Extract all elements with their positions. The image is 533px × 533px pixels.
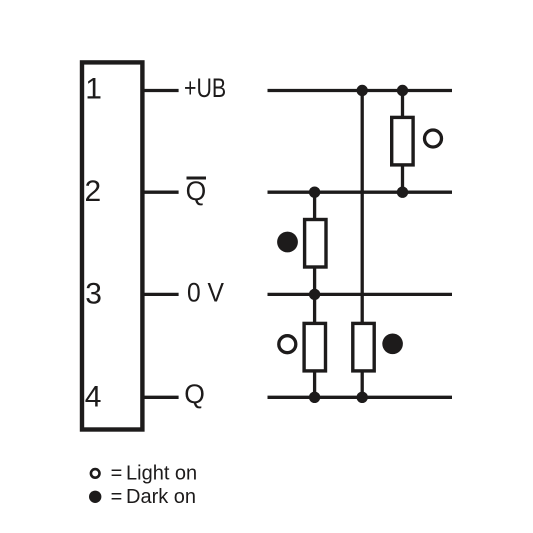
svg-text:2: 2 xyxy=(85,175,102,208)
wire Q-bar rail xyxy=(268,191,453,194)
svg-text:4: 4 xyxy=(85,380,102,413)
svg-text:Dark on: Dark on xyxy=(126,486,196,508)
junction dot Q / R3 branch xyxy=(309,392,320,403)
indicator dark-on (filled circle) beside R4 xyxy=(382,334,403,355)
overline of Q-bar xyxy=(187,177,207,180)
junction dot +UB / R1 branch xyxy=(397,85,408,96)
svg-text:+UB: +UB xyxy=(184,73,226,103)
indicator light-on (open circle) beside R3 xyxy=(279,336,296,353)
resistor R2 (load between Q-bar and 0V) xyxy=(305,220,326,268)
junction dot Q / R4 branch xyxy=(357,392,368,403)
svg-text:Light on: Light on xyxy=(126,463,197,485)
pin 4 stub xyxy=(142,396,179,399)
pin 2 stub xyxy=(142,191,179,194)
wire 0V rail xyxy=(268,293,453,296)
junction dot 0V / R2-R3 branch xyxy=(309,289,320,300)
wire R4 bottom to Q rail xyxy=(361,371,364,397)
wire R3 bottom to Q rail xyxy=(313,371,316,397)
resistor R3 (load between 0V and Q) xyxy=(304,323,325,371)
svg-text:0 V: 0 V xyxy=(187,278,224,308)
indicator light-on (open circle) beside R1 xyxy=(425,130,442,147)
wire R1 bottom to Q-bar rail xyxy=(401,165,404,192)
legend open circle (light on) xyxy=(91,469,100,478)
svg-text:=: = xyxy=(111,463,123,485)
svg-text:1: 1 xyxy=(85,72,102,105)
IC box U1 xyxy=(82,62,142,429)
svg-text:Q: Q xyxy=(186,176,207,206)
pin 3 stub xyxy=(142,293,179,296)
wire Q rail xyxy=(268,396,453,399)
wire R2 bottom through 0V rail to R3 top xyxy=(313,268,316,325)
wire +UB rail xyxy=(268,89,453,92)
svg-text:Q: Q xyxy=(184,379,205,409)
wire Q-bar rail to R2 top xyxy=(313,192,316,220)
resistor R1 (load between +UB and Q-bar) xyxy=(392,117,413,164)
svg-text:=: = xyxy=(111,486,123,508)
junction dot Q-bar / R1 branch xyxy=(397,187,408,198)
indicator dark-on (filled circle) beside R2 xyxy=(277,232,298,253)
wire +UB rail to R1 top xyxy=(401,91,404,119)
wire from +UB rail down to R4 (long vertical) xyxy=(361,91,364,324)
pin 1 stub xyxy=(142,89,179,92)
junction dot Q-bar / R2 branch xyxy=(309,187,320,198)
resistor R4 (load between +UB and Q) xyxy=(353,323,374,371)
junction dot +UB / long vertical xyxy=(357,85,368,96)
svg-text:3: 3 xyxy=(85,278,102,311)
legend filled circle (dark on) xyxy=(89,491,101,503)
